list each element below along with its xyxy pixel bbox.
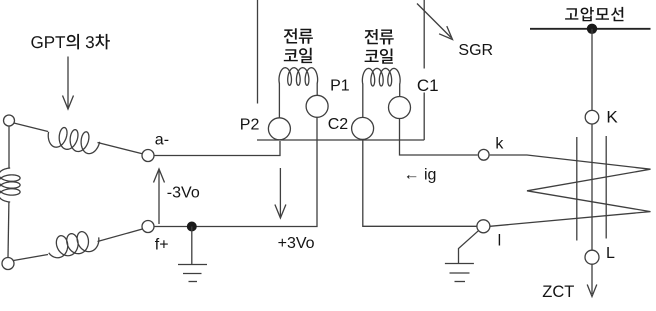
svg-text:SGR: SGR xyxy=(458,42,493,59)
svg-text:-3Vo: -3Vo xyxy=(167,184,200,201)
wire bottom winding to terminal f xyxy=(98,229,143,242)
wire C2 drop to l xyxy=(363,139,477,226)
wire left winding to BL-vertex xyxy=(7,202,10,258)
wire coil2 right leg xyxy=(399,84,401,97)
label high-voltage bus (고압모선) xyxy=(565,7,623,21)
svg-text:ZCT: ZCT xyxy=(542,283,574,301)
label GPT secondary (GPT의 3차) xyxy=(31,34,110,50)
terminal f+ circle xyxy=(142,221,154,233)
inductor top winding (to terminal a) xyxy=(48,128,99,154)
terminal k circle xyxy=(478,149,489,160)
wire coil2 left leg xyxy=(362,84,364,118)
label current coil 1 (전류 코일) xyxy=(284,28,313,44)
node delta top-left vertex xyxy=(4,115,15,126)
wire stub from top at P2 side xyxy=(257,0,259,104)
annotation arrow to GPT winding xyxy=(63,57,74,110)
wire TL-vertex to left winding xyxy=(8,126,10,168)
wire f+ line to P1 drop xyxy=(154,117,317,226)
wire K to L (ZCT primary) xyxy=(591,124,593,250)
svg-text:a-: a- xyxy=(155,131,169,148)
ZCT core bar left xyxy=(576,137,578,241)
svg-text:k: k xyxy=(495,136,504,153)
node delta bottom-left vertex xyxy=(2,258,14,270)
terminal C2 circle xyxy=(352,117,374,139)
annotation arrow SGR xyxy=(417,4,453,40)
svg-text:← ig: ← ig xyxy=(404,167,437,184)
svg-text:C1: C1 xyxy=(417,76,439,95)
junction dot on bus xyxy=(587,24,597,34)
terminal a- circle xyxy=(142,150,154,162)
terminal L circle xyxy=(585,250,599,264)
wire bus to K xyxy=(591,29,593,111)
ground below junction dot xyxy=(178,227,207,282)
inductor bottom winding (to terminal f) xyxy=(49,232,99,258)
high-voltage bus line xyxy=(530,28,651,30)
svg-text:l: l xyxy=(498,233,502,250)
ground at l terminal xyxy=(445,231,478,282)
wire C1 drop to k xyxy=(400,119,478,155)
arrow +3Vo (down) xyxy=(275,168,286,218)
svg-text:P2: P2 xyxy=(240,116,260,133)
ZCT core bar right xyxy=(605,136,607,239)
svg-text:K: K xyxy=(606,107,618,126)
wire BL-vertex to bottom winding xyxy=(14,255,49,261)
terminal K circle xyxy=(585,110,599,124)
terminal P1 circle xyxy=(306,95,328,117)
svg-text:+3Vo: +3Vo xyxy=(278,235,315,252)
ZCT secondary zigzag winding xyxy=(490,155,651,226)
arrow -3Vo (up) xyxy=(154,169,165,224)
wire bus under coil terminals xyxy=(257,139,424,141)
inductor current coil 2 xyxy=(362,68,400,86)
terminal C1 circle xyxy=(389,97,411,119)
terminal l circle xyxy=(477,220,490,233)
svg-text:P1: P1 xyxy=(330,77,350,94)
inductor left winding (delta side ab) xyxy=(0,168,20,202)
wire top winding to terminal a xyxy=(98,143,143,154)
svg-text:C2: C2 xyxy=(328,116,349,133)
svg-text:f+: f+ xyxy=(155,237,169,254)
junction dot on f+ line xyxy=(187,222,197,232)
wire coil1 right leg xyxy=(316,83,318,95)
label current coil 2 (전류 코일) xyxy=(365,29,394,45)
label C1 with mask xyxy=(414,69,441,93)
arrow below L xyxy=(587,264,597,296)
wire stub from top at C1 side xyxy=(423,0,425,140)
svg-text:L: L xyxy=(606,245,615,262)
wire TL-vertex to top winding xyxy=(14,123,48,132)
wire a- to P2 riser xyxy=(154,141,280,156)
wire coil1 left leg xyxy=(278,83,280,118)
inductor current coil 1 xyxy=(279,68,318,86)
terminal P2 circle xyxy=(268,118,290,140)
